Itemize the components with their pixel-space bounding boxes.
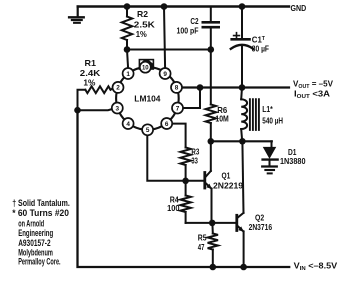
svg-text:10: 10: [142, 66, 149, 72]
pin 4: [123, 118, 134, 129]
diode D1: [262, 141, 277, 173]
pin 8: [171, 82, 182, 93]
wire left branch / VIN rail: [78, 110, 290, 267]
svg-text:IOUT <3A: IOUT <3A: [294, 90, 330, 101]
pin 5: [142, 124, 153, 135]
svg-text:5: 5: [146, 127, 150, 134]
resistor R1: [85, 86, 110, 93]
svg-text:100: 100: [167, 203, 180, 213]
node: rail-R2 junction: [124, 3, 131, 10]
node: R5-VIN junction: [210, 264, 217, 271]
svg-text:2N3716: 2N3716: [249, 222, 273, 232]
svg-text:GND: GND: [291, 3, 307, 13]
pin 3: [112, 103, 123, 114]
svg-text:7: 7: [176, 105, 180, 112]
ground (top left): [69, 7, 84, 23]
resistor R4: [185, 181, 187, 196]
svg-text:9: 9: [163, 71, 167, 78]
svg-text:* 60 Turns #20: * 60 Turns #20: [12, 208, 69, 218]
svg-text:1%: 1%: [136, 29, 147, 39]
svg-text:2.4K: 2.4K: [80, 68, 101, 78]
node: R2/C2/pin1 junction: [124, 46, 131, 53]
svg-text:47: 47: [198, 242, 205, 252]
pin 9: [160, 68, 171, 79]
capacitor C1 (polarized): [231, 7, 253, 88]
node: Q2 emitter-VIN junction: [240, 264, 247, 271]
wire R4 bottom to Q2 base: [186, 222, 237, 224]
op-amp/regulator U1 LM104 body: [116, 67, 179, 130]
svg-text:2: 2: [116, 85, 120, 92]
node: C1/L1 junction on VOUT: [239, 84, 246, 91]
svg-text:4: 4: [126, 121, 130, 128]
svg-text:L1*: L1*: [262, 104, 273, 114]
resistor R2: [122, 17, 132, 41]
svg-text:R2: R2: [137, 9, 148, 19]
wire pin 7 jog: [183, 88, 200, 109]
pin 10: [140, 62, 151, 73]
svg-text:VIN <–8.5V: VIN <–8.5V: [294, 262, 338, 273]
wire R2 bottom stub: [126, 40, 128, 50]
svg-text:LM104: LM104: [134, 93, 160, 103]
inductor L1: [241, 88, 259, 142]
LM104 pin-10 tab: [139, 59, 155, 70]
transistor Q1: [205, 141, 212, 223]
node: R5/Q1 emitter junction: [209, 220, 216, 227]
svg-text:1%: 1%: [83, 77, 96, 87]
transistor Q2: [237, 141, 244, 267]
node: L1/Q2 collector junction: [239, 138, 246, 145]
capacitor C2: [203, 7, 219, 50]
svg-text:Engineering: Engineering: [18, 228, 53, 238]
wire pin 5 to Q1 base: [147, 135, 205, 181]
svg-text:R1: R1: [85, 58, 97, 68]
node: R6/Q1 collector junction: [208, 138, 215, 145]
wire C2 node down to R6 (crosses VOUT line): [210, 50, 212, 105]
node: Q1 base junction: [182, 178, 189, 185]
svg-text:80 µF: 80 µF: [252, 44, 269, 54]
resistor R6: [206, 105, 216, 124]
svg-text:2N2219: 2N2219: [213, 181, 243, 191]
resistor R5: [211, 223, 213, 234]
svg-text:Permalloy Core.: Permalloy Core.: [18, 257, 60, 267]
node: rail-C1 junction: [239, 3, 246, 10]
pin 1: [123, 68, 134, 79]
wire node to pin 3: [78, 109, 113, 110]
svg-text:6: 6: [165, 121, 169, 128]
wire R2 node to pin 1: [127, 50, 128, 69]
wire pin 9 to GND rail: [164, 7, 165, 69]
wire switch node: [211, 140, 272, 142]
pin 6: [161, 118, 172, 129]
svg-text:1N3880: 1N3880: [280, 156, 306, 166]
svg-text:100 pF: 100 pF: [177, 26, 199, 36]
pin 7: [172, 103, 183, 114]
svg-text:33: 33: [191, 156, 198, 166]
svg-text:1: 1: [126, 71, 130, 78]
svg-text:Q1: Q1: [222, 171, 231, 181]
svg-text:8: 8: [175, 85, 179, 92]
wire GND rail: [78, 5, 289, 7]
node: rail-pin9 junction: [161, 3, 168, 10]
wire R2 top stub: [126, 7, 128, 17]
svg-text:10M: 10M: [215, 114, 228, 124]
resistor R3: [180, 148, 190, 166]
svg-text:† Solid Tantalum.: † Solid Tantalum.: [12, 198, 70, 208]
wire VOUT line: [182, 86, 289, 88]
svg-text:3: 3: [116, 105, 120, 112]
wire R2 node to C2 bottom: [127, 49, 211, 51]
pin 2: [113, 82, 124, 93]
node: pin7 junction on VOUT: [197, 84, 204, 91]
wire pin 6 to R3: [172, 124, 186, 148]
node: C2 bottom junction: [208, 46, 215, 53]
svg-text:540 µH: 540 µH: [262, 115, 283, 125]
node: R1/pin3 junction: [74, 107, 81, 114]
